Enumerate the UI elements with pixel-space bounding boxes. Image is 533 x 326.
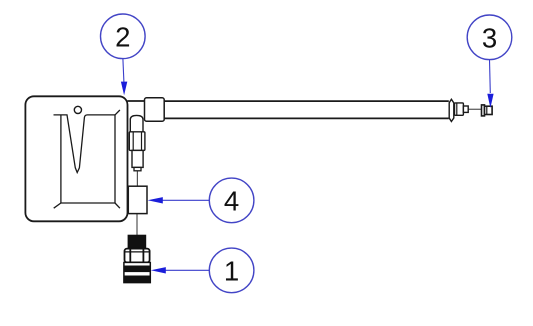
tube [150,101,449,118]
right end nut [455,103,464,115]
leader 4 [163,199,210,201]
union block on tube [145,98,165,121]
svg-text:3: 3 [482,23,497,54]
centerline below part 4 [136,214,138,236]
part 4 block [128,186,147,213]
leader 1 [166,269,210,271]
body outer (valve housing, item 2) [25,96,127,221]
stem tip [134,167,141,170]
svg-text:2: 2 [115,22,130,53]
item 3 nozzle [482,105,485,116]
item 1 washer stack [124,262,150,282]
elbow top edge [128,100,145,102]
svg-text:1: 1 [224,256,239,287]
arrowhead 2 [121,82,127,96]
balloon circle 4 [209,178,254,223]
arrowhead 1 [151,267,166,273]
item 1 black cap [128,235,146,248]
body inner pocket outline with slot [54,115,116,173]
centerline above part 4 [136,171,138,186]
arrowhead 3 [487,94,493,108]
lower stem [132,150,143,167]
corner ticks [54,110,120,208]
right end pin [463,106,468,112]
leader 2 [123,59,124,82]
inner pocket verticals and bottom [61,115,115,203]
item 1 hex nut [125,249,150,263]
upper fitting nut [129,132,145,151]
balloon circle 1 [209,248,254,293]
right end ferrule flange [449,99,454,121]
balloon circle 2 [101,14,146,59]
leader 3 [489,60,492,93]
balloon circle 3 [467,15,512,60]
svg-text:4: 4 [224,186,239,217]
elbow dome and neck [130,115,143,131]
arrowhead 4 [148,197,163,203]
centerline to item 3 [468,108,481,110]
small hole [74,106,81,113]
